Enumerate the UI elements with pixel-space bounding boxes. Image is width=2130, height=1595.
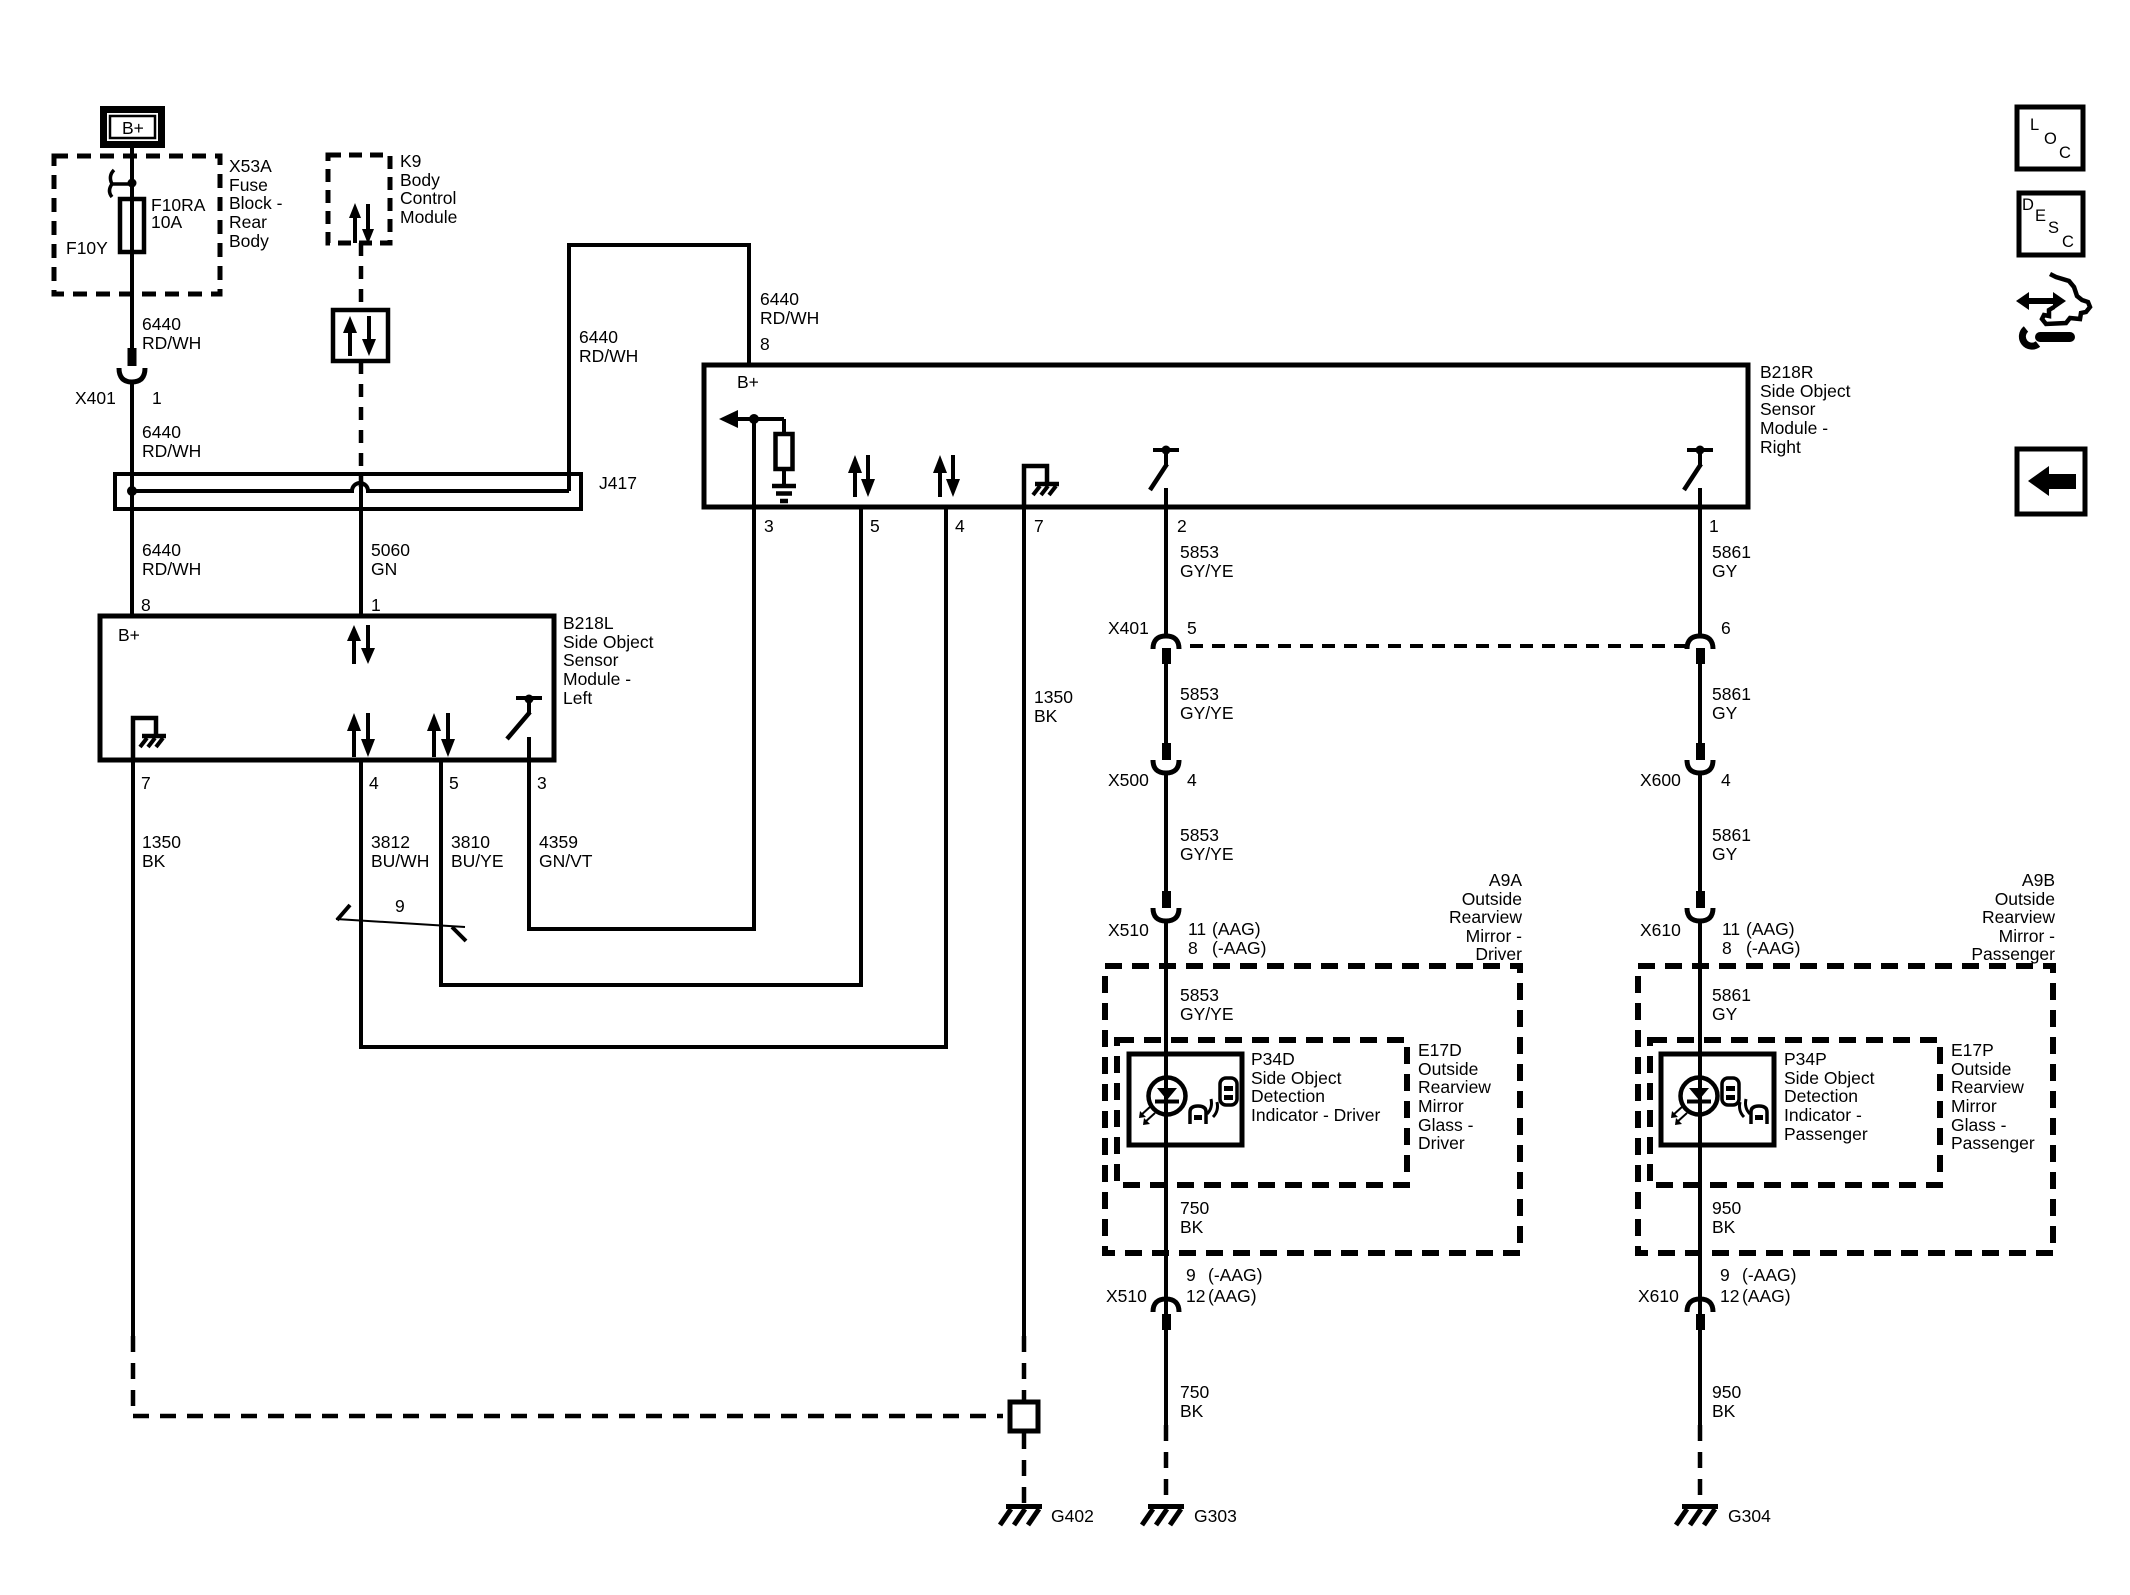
svg-text:X53A: X53A [229, 156, 272, 176]
wire 3810 BU/YE B218L pin5 to B218R pin5 [441, 507, 861, 985]
DESC letters [2022, 196, 2074, 251]
svg-text:G303: G303 [1194, 1506, 1237, 1526]
svg-text:Side Object: Side Object [1784, 1068, 1875, 1088]
LED indicator P34D [1139, 1078, 1186, 1126]
svg-text:J417: J417 [599, 473, 637, 493]
label 950 BK [1712, 1198, 1741, 1237]
connector X401 pin 5 [1153, 636, 1179, 664]
svg-text:Outside: Outside [1462, 889, 1522, 909]
label X500 4 [1108, 770, 1197, 790]
svg-text:6440: 6440 [142, 422, 181, 442]
svg-text:(-AAG): (-AAG) [1746, 938, 1800, 958]
svg-text:Fuse: Fuse [229, 175, 268, 195]
svg-text:Passenger: Passenger [1784, 1124, 1868, 1144]
svg-text:Passenger: Passenger [1951, 1133, 2035, 1153]
svg-text:S: S [2048, 219, 2059, 237]
svg-text:4359: 4359 [539, 832, 578, 852]
dashed wire to G402 splice [1022, 1336, 1027, 1400]
wire 6440 RD/WH fuse to X401 [130, 252, 134, 348]
LOC letters [2030, 116, 2071, 162]
wire 5853 GY/YE B218R pin2 down [1164, 507, 1168, 636]
svg-text:8: 8 [1188, 938, 1198, 958]
label 6440 RD/WH below J417 [142, 540, 201, 579]
svg-text:4: 4 [955, 516, 965, 536]
svg-text:5: 5 [449, 773, 459, 793]
P34D car-top glyph [1220, 1078, 1237, 1105]
connector X500 pin 4 [1153, 743, 1179, 773]
svg-text:E: E [2035, 207, 2046, 225]
label K9 Body Control Module [400, 151, 457, 227]
wire 5861 GY X401 to X600 [1698, 664, 1702, 743]
label 5060 GN [371, 540, 410, 579]
svg-text:8: 8 [760, 334, 770, 354]
label 1350 BK [142, 832, 181, 871]
svg-text:Mirror: Mirror [1418, 1096, 1464, 1116]
dashed wire 950 BK to G304 [1698, 1425, 1703, 1504]
svg-text:GY: GY [1712, 844, 1738, 864]
svg-text:950: 950 [1712, 1382, 1741, 1402]
P34P car-behind glyph [1751, 1106, 1767, 1124]
svg-text:5853: 5853 [1180, 825, 1219, 845]
wire 5861 GY X600 to X610 [1698, 773, 1702, 891]
svg-text:(AAG): (AAG) [1208, 1286, 1257, 1306]
svg-text:4: 4 [369, 773, 379, 793]
svg-text:3: 3 [537, 773, 547, 793]
svg-text:X401: X401 [75, 388, 116, 408]
svg-text:A9A: A9A [1489, 870, 1522, 890]
svg-text:E17P: E17P [1951, 1040, 1994, 1060]
svg-text:C: C [2062, 233, 2074, 251]
svg-text:Rear: Rear [229, 212, 267, 232]
svg-text:GY: GY [1712, 1004, 1738, 1024]
svg-text:3: 3 [764, 516, 774, 536]
svg-text:X510: X510 [1106, 1286, 1147, 1306]
module B218R Side Object Sensor Module - Right [704, 365, 1748, 507]
serial data communication box [333, 310, 388, 361]
svg-text:(-AAG): (-AAG) [1208, 1265, 1262, 1285]
svg-text:950: 950 [1712, 1198, 1741, 1218]
label 5861 GY inside mirror [1712, 985, 1751, 1024]
svg-text:1: 1 [152, 388, 162, 408]
svg-text:D: D [2022, 196, 2034, 214]
label 3812 BU/WH [371, 832, 429, 871]
svg-text:Mirror: Mirror [1951, 1096, 1997, 1116]
label 5853 GY/YE inside mirror [1180, 985, 1234, 1024]
B218L pin7 internal chassis ground [133, 718, 166, 760]
svg-text:5861: 5861 [1712, 825, 1751, 845]
B218L pin5 arrows [427, 713, 455, 757]
wire 4359 GN/VT B218L pin3 to B218R pin3 [529, 507, 754, 929]
svg-text:Right: Right [1760, 437, 1801, 457]
svg-text:BK: BK [1180, 1217, 1204, 1237]
svg-text:5853: 5853 [1180, 985, 1219, 1005]
svg-text:Left: Left [563, 688, 592, 708]
twisted pair marker 9 [336, 905, 466, 941]
svg-text:E17D: E17D [1418, 1040, 1462, 1060]
svg-text:9: 9 [1720, 1265, 1730, 1285]
svg-text:GN/VT: GN/VT [539, 851, 593, 871]
label 6440 RD/WH riser [579, 327, 638, 366]
svg-text:12: 12 [1720, 1286, 1739, 1306]
connector X401 pin 1 [119, 348, 145, 382]
svg-text:9: 9 [395, 896, 405, 916]
label 6440 RD/WH [142, 422, 201, 461]
svg-text:P34D: P34D [1251, 1049, 1295, 1069]
connector X510 pin 9 [1153, 1299, 1179, 1330]
svg-text:4: 4 [1187, 770, 1197, 790]
dashed wire 750 BK to G303 [1164, 1425, 1169, 1504]
vehicle diagnostic icon car outline [2042, 274, 2090, 324]
svg-text:5060: 5060 [371, 540, 410, 560]
label 5861 GY [1712, 684, 1751, 723]
label 3810 BU/YE [451, 832, 504, 871]
svg-text:Detection: Detection [1251, 1086, 1325, 1106]
svg-text:5861: 5861 [1712, 684, 1751, 704]
label X510 9 12 [1106, 1265, 1262, 1306]
B218L pin labels 7 4 5 3 [141, 773, 547, 793]
B218R pin labels 3 5 4 7 2 1 [764, 516, 1719, 536]
B218R internal B+ node arrow [719, 410, 784, 428]
wire 5060 GN J417 to B218L pin 1 [359, 487, 363, 616]
svg-text:A9B: A9B [2022, 870, 2055, 890]
svg-text:Side Object: Side Object [563, 632, 654, 652]
svg-text:BU/YE: BU/YE [451, 851, 504, 871]
label X610 9 12 [1638, 1265, 1796, 1306]
svg-text:K9: K9 [400, 151, 421, 171]
label 950 BK below X610 [1712, 1382, 1741, 1421]
svg-text:GY/YE: GY/YE [1180, 844, 1234, 864]
svg-text:RD/WH: RD/WH [760, 308, 819, 328]
splice square at G402 [1010, 1402, 1038, 1431]
label 5853 GY/YE [1180, 684, 1234, 723]
label B218L Side Object Sensor Module - Left [563, 613, 654, 708]
svg-text:Rearview: Rearview [1449, 907, 1522, 927]
B218R pin7 internal chassis ground [1024, 466, 1059, 507]
svg-text:4: 4 [1721, 770, 1731, 790]
svg-text:RD/WH: RD/WH [142, 559, 201, 579]
label E17P Outside Rearview Mirror Glass - Passenger [1951, 1040, 2035, 1153]
svg-text:3810: 3810 [451, 832, 490, 852]
svg-text:GY: GY [1712, 561, 1738, 581]
svg-text:X510: X510 [1108, 920, 1149, 940]
P34D car-behind glyph [1190, 1106, 1206, 1124]
svg-text:Sensor: Sensor [1760, 399, 1816, 419]
svg-text:(-AAG): (-AAG) [1212, 938, 1266, 958]
svg-text:5853: 5853 [1180, 542, 1219, 562]
LED indicator P34P [1671, 1078, 1718, 1126]
svg-text:2: 2 [1177, 516, 1187, 536]
label B218R Side Object Sensor Module - Right [1760, 362, 1851, 457]
P34D Side Object Detection Indicator - Driver box [1129, 1054, 1242, 1145]
svg-text:X401: X401 [1108, 618, 1149, 638]
wire 3812 BU/WH B218L pin4 to B218R pin4 [361, 507, 946, 1047]
svg-text:Block -: Block - [229, 193, 283, 213]
svg-text:Glass -: Glass - [1418, 1115, 1474, 1135]
svg-text:1: 1 [371, 595, 381, 615]
P34D radar waves glyph [1207, 1099, 1218, 1117]
label 1350 BK right [1034, 687, 1073, 726]
svg-text:Module -: Module - [563, 669, 631, 689]
svg-text:11: 11 [1188, 919, 1206, 939]
svg-text:Module: Module [400, 207, 457, 227]
svg-text:10A: 10A [151, 212, 182, 232]
svg-text:RD/WH: RD/WH [142, 441, 201, 461]
svg-text:750: 750 [1180, 1198, 1209, 1218]
svg-text:8: 8 [1722, 938, 1732, 958]
B218R pin4 arrows [933, 455, 960, 497]
label P34D Side Object Detection Indicator - Driver [1251, 1049, 1381, 1125]
svg-text:Control: Control [400, 188, 456, 208]
wire 6440 RD/WH X401 to J417 [130, 384, 134, 616]
svg-text:B218R: B218R [1760, 362, 1814, 382]
label 4359 GN/VT [539, 832, 593, 871]
A9A Outside Rearview Mirror - Driver dashed box [1105, 966, 1520, 1253]
E17P Outside Rearview Mirror Glass - Passenger dashed box [1650, 1040, 1940, 1185]
svg-text:B218L: B218L [563, 613, 614, 633]
svg-text:GN: GN [371, 559, 397, 579]
svg-text:O: O [2044, 130, 2057, 148]
svg-text:B+: B+ [122, 118, 144, 138]
splice pack J417 [115, 474, 581, 509]
svg-text:9: 9 [1186, 1265, 1196, 1285]
svg-text:Rearview: Rearview [1951, 1077, 2024, 1097]
svg-text:1350: 1350 [142, 832, 181, 852]
K9 serial data arrows [349, 203, 374, 244]
ground G303 [1142, 1507, 1184, 1526]
label X610 11 8 [1640, 919, 1800, 958]
module B218L Side Object Sensor Module - Left [100, 616, 554, 760]
svg-text:1350: 1350 [1034, 687, 1073, 707]
ground G304 [1676, 1507, 1718, 1526]
B218R internal resistor [776, 419, 793, 484]
dashed wire 5060 comm box to J417 [359, 361, 364, 487]
svg-text:BK: BK [1712, 1217, 1736, 1237]
svg-text:Side Object: Side Object [1760, 381, 1851, 401]
svg-text:Indicator -: Indicator - [1784, 1105, 1862, 1125]
svg-text:GY/YE: GY/YE [1180, 561, 1234, 581]
svg-text:BK: BK [1034, 706, 1058, 726]
svg-text:7: 7 [141, 773, 151, 793]
label X600 4 [1640, 770, 1731, 790]
svg-text:L: L [2030, 116, 2039, 134]
vehicle diagnostic icon double arrow [2016, 292, 2066, 310]
svg-text:Module -: Module - [1760, 418, 1828, 438]
svg-text:Glass -: Glass - [1951, 1115, 2007, 1135]
B218L pin1 arrows [347, 625, 375, 664]
svg-text:5861: 5861 [1712, 985, 1751, 1005]
wire B+ to fuse [130, 148, 134, 252]
label X401 5 [1108, 618, 1197, 638]
dashed wire 1350 BK to G402 splice [133, 1336, 1003, 1416]
junction dot at J417 [127, 486, 137, 496]
wire 5853 GY/YE X500 to X510 [1164, 773, 1168, 891]
svg-text:5: 5 [870, 516, 880, 536]
P34P car-top glyph [1722, 1078, 1739, 1105]
B218R pin1 internal switch [1684, 446, 1713, 508]
svg-text:Indicator - Driver: Indicator - Driver [1251, 1105, 1381, 1125]
svg-text:BU/WH: BU/WH [371, 851, 429, 871]
svg-text:Outside: Outside [1995, 889, 2055, 909]
svg-text:Driver: Driver [1418, 1133, 1465, 1153]
label 750 BK below X510 [1180, 1382, 1209, 1421]
wire 750 BK X510 down [1164, 1330, 1168, 1425]
svg-text:RD/WH: RD/WH [142, 333, 201, 353]
svg-text:B+: B+ [737, 372, 759, 392]
svg-text:5853: 5853 [1180, 684, 1219, 704]
back arrow [2028, 466, 2076, 496]
svg-text:5861: 5861 [1712, 542, 1751, 562]
wire 5853 GY/YE into mirror [1164, 921, 1168, 1425]
svg-text:X600: X600 [1640, 770, 1681, 790]
svg-text:Rearview: Rearview [1982, 907, 2055, 927]
B218L pin4 arrows [347, 713, 375, 757]
dashed wire splice to G402 [1022, 1433, 1027, 1504]
svg-text:BK: BK [1180, 1401, 1204, 1421]
wire 950 BK X610 down [1698, 1330, 1702, 1425]
svg-text:11: 11 [1722, 919, 1740, 939]
K9 Body Control Module dashed box [328, 155, 390, 243]
svg-text:RD/WH: RD/WH [579, 346, 638, 366]
svg-text:X610: X610 [1640, 920, 1681, 940]
svg-text:3812: 3812 [371, 832, 410, 852]
label 5861 GY [1712, 825, 1751, 864]
B218R pin2 internal switch [1150, 446, 1179, 508]
svg-text:Rearview: Rearview [1418, 1077, 1491, 1097]
fuse tap hook [110, 170, 137, 197]
label 5853 GY/YE [1180, 825, 1234, 864]
label A9B Outside Rearview Mirror - Passenger [1971, 870, 2055, 964]
svg-text:P34P: P34P [1784, 1049, 1827, 1069]
svg-text:(AAG): (AAG) [1746, 919, 1795, 939]
connector X510 pin 11 [1153, 891, 1179, 921]
B218L pin3 internal switch [507, 695, 542, 761]
B218R pin3 wire inside box [752, 419, 756, 507]
svg-text:X610: X610 [1638, 1286, 1679, 1306]
svg-text:(AAG): (AAG) [1742, 1286, 1791, 1306]
svg-text:GY: GY [1712, 703, 1738, 723]
label 6440 RD/WH at B218R pin 8 [760, 289, 819, 328]
back navigation arrow box [2017, 449, 2085, 514]
svg-text:6440: 6440 [760, 289, 799, 309]
wire 5853 GY/YE X401 to X500 [1164, 664, 1168, 743]
svg-text:1: 1 [1709, 516, 1719, 536]
svg-text:Driver: Driver [1475, 944, 1522, 964]
label X401 1 [75, 388, 162, 408]
dashed link X401 pin5 to pin6 [1190, 644, 1686, 648]
svg-text:C: C [2059, 144, 2071, 162]
connector X610 pin 9 [1687, 1299, 1713, 1330]
dashed wire K9 to comm box [359, 243, 364, 310]
svg-text:G304: G304 [1728, 1506, 1771, 1526]
wire 5861 GY B218R pin1 down [1698, 507, 1702, 636]
svg-text:Side Object: Side Object [1251, 1068, 1342, 1088]
svg-text:8: 8 [141, 595, 151, 615]
P34P Side Object Detection Indicator - Passenger box [1661, 1054, 1774, 1145]
svg-text:F10Y: F10Y [66, 238, 108, 258]
svg-text:G402: G402 [1051, 1506, 1094, 1526]
connector X600 pin 4 [1687, 743, 1713, 773]
DESC reference box [2019, 193, 2083, 255]
connector X401 pin 6 [1687, 636, 1713, 664]
svg-text:7: 7 [1034, 516, 1044, 536]
label 5853 GY/YE [1180, 542, 1234, 581]
svg-text:Mirror -: Mirror - [1999, 926, 2056, 946]
svg-text:Mirror -: Mirror - [1466, 926, 1523, 946]
label X510 11 8 [1108, 919, 1266, 958]
svg-text:Detection: Detection [1784, 1086, 1858, 1106]
label P34P Side Object Detection Indicator - Passenger [1784, 1049, 1875, 1144]
svg-text:X500: X500 [1108, 770, 1149, 790]
A9B Outside Rearview Mirror - Passenger dashed box [1638, 966, 2053, 1253]
connector X610 pin 11 [1687, 891, 1713, 921]
label 750 BK [1180, 1198, 1209, 1237]
svg-text:Sensor: Sensor [563, 650, 619, 670]
svg-text:12: 12 [1186, 1286, 1205, 1306]
label 6440 RD/WH [142, 314, 201, 353]
svg-text:GY/YE: GY/YE [1180, 1004, 1234, 1024]
svg-text:Body: Body [400, 170, 440, 190]
svg-text:Outside: Outside [1418, 1059, 1478, 1079]
wire 1350 BK B218L pin7 down [131, 760, 135, 1336]
comm box arrows [343, 316, 376, 356]
svg-text:BK: BK [1712, 1401, 1736, 1421]
B+ battery feed symbol [104, 110, 162, 145]
label A9A Outside Rearview Mirror - Driver [1449, 870, 1522, 964]
svg-text:6440: 6440 [579, 327, 618, 347]
svg-text:750: 750 [1180, 1382, 1209, 1402]
wire 1350 BK B218R pin7 down [1022, 507, 1026, 1336]
svg-text:Body: Body [229, 231, 269, 251]
svg-text:6440: 6440 [142, 314, 181, 334]
label X53A Fuse Block - Rear Body [229, 156, 283, 251]
B218R internal earth ground [772, 486, 796, 501]
fuse F10RA 10A [120, 199, 144, 252]
P34P radar waves glyph [1740, 1099, 1751, 1117]
ground G402 [1000, 1507, 1042, 1526]
svg-text:BK: BK [142, 851, 166, 871]
svg-text:GY/YE: GY/YE [1180, 703, 1234, 723]
fuse block X53A dashed box [54, 156, 220, 294]
svg-text:6440: 6440 [142, 540, 181, 560]
svg-text:(AAG): (AAG) [1212, 919, 1261, 939]
wire 6440 RD/WH J417 to B218R pin 8 [569, 245, 749, 491]
LOC reference box [2017, 107, 2083, 169]
wire 5861 GY into mirror [1698, 921, 1702, 1425]
B218R pin5 arrows [848, 455, 875, 497]
svg-text:Outside: Outside [1951, 1059, 2011, 1079]
label E17D Outside Rearview Mirror Glass - Driver [1418, 1040, 1491, 1153]
svg-text:Passenger: Passenger [1971, 944, 2055, 964]
svg-text:(-AAG): (-AAG) [1742, 1265, 1796, 1285]
svg-text:B+: B+ [118, 625, 140, 645]
label 5861 GY [1712, 542, 1751, 581]
svg-text:6: 6 [1721, 618, 1731, 638]
E17D Outside Rearview Mirror Glass - Driver dashed box [1117, 1040, 1407, 1185]
vehicle diagnostic icon wrench [2022, 329, 2070, 346]
svg-text:5: 5 [1187, 618, 1197, 638]
